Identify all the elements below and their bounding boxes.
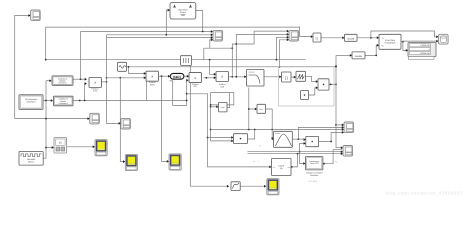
wire vco out — [323, 150, 342, 164]
wire vco in — [300, 152, 305, 164]
wire v106 tap — [107, 35, 120, 124]
svg-text:double: double — [347, 37, 355, 40]
svg-text:Converter: Converter — [58, 82, 67, 85]
block Sum 2 — [234, 134, 248, 144]
svg-text:7 1: 7 1 — [259, 144, 263, 147]
wire goto to prodBT1 — [184, 75, 188, 77]
wire filter1 out — [264, 76, 280, 78]
svg-text:Calculation: Calculation — [385, 41, 397, 44]
wire dotblk to prod4 — [309, 88, 317, 95]
svg-text:Pᵥₓ: Pᵥₓ — [335, 161, 338, 164]
wire b20 out — [229, 76, 245, 78]
wire filter2 out — [292, 138, 305, 140]
wire scopeB in3 h — [276, 36, 288, 38]
svg-text:· · 4 · · 1: · · 4 · · 1 — [251, 160, 260, 163]
wire v207 corridor — [208, 94, 271, 167]
svg-text:[ ]: [ ] — [316, 36, 319, 40]
wire v44 left loop — [45, 27, 47, 60]
wire bernoulli out — [43, 157, 46, 159]
wire scopeA in2 — [107, 34, 212, 36]
wire to white monitor 1 — [15, 118, 46, 120]
svg-text:[I&D]: [I&D] — [173, 75, 180, 79]
block VCO — [306, 157, 323, 170]
wire b23 to prod4 — [306, 76, 317, 81]
wire b5 to double1 — [321, 37, 343, 39]
wire sum2 in1 — [208, 137, 233, 139]
wire resh1 out loop — [266, 109, 273, 130]
wire long line y27.1 — [46, 27, 312, 36]
block Frame Conversion 1 — [313, 33, 321, 42]
wire scopeB in1 h — [254, 30, 288, 32]
svg-text:Generator: Generator — [26, 100, 35, 103]
svg-text:1.605e+05: 1.605e+05 — [420, 52, 431, 55]
block Product I ch — [89, 78, 101, 88]
wire scopeA in4 — [210, 40, 212, 48]
block Integrate and Dump — [296, 71, 306, 81]
wire conv10 to scope1 — [67, 146, 94, 148]
block Counter — [272, 159, 292, 176]
wire scopeB in2 h — [236, 33, 288, 35]
block Error Rate Calculation — [379, 34, 401, 49]
wire scopeB in3 tap — [275, 37, 277, 59]
wire long line y59.7 — [46, 59, 306, 61]
svg-text:double: double — [355, 55, 363, 58]
wire tap v80.5 scopeA in1 — [80, 32, 82, 80]
block Scope B (4-input) — [289, 30, 299, 41]
wire prodI out — [101, 81, 106, 83]
annotation grey area box — [279, 67, 335, 107]
svg-text:2.493e-05: 2.493e-05 — [420, 44, 430, 47]
wire scopeD in1 — [336, 147, 342, 149]
block Lowpass Filter 1 — [247, 70, 265, 87]
svg-text:Lowpass: Lowpass — [248, 71, 255, 74]
svg-text:Time VCO: Time VCO — [310, 162, 319, 165]
wire up to prodBT1 in2 — [186, 80, 189, 105]
wire scopeB in1 z — [232, 31, 254, 77]
svg-text:(BW): (BW) — [150, 83, 155, 86]
block Converter 10 — [54, 138, 67, 153]
wire scopeA in1 — [81, 31, 212, 33]
svg-text:(0.1 48.0): (0.1 48.0) — [309, 180, 318, 183]
svg-text:blog.csdn.net/weixin_42654107: blog.csdn.net/weixin_42654107 — [386, 191, 463, 196]
block Unipolar to Bipolar Converter — [52, 76, 73, 85]
wire spectrum feed — [166, 10, 169, 35]
wire v190 down — [190, 60, 228, 187]
wire prodQ in2 line — [107, 77, 146, 79]
wire count out — [291, 154, 298, 167]
wire double2 feed — [336, 54, 351, 56]
block Product X — [306, 136, 319, 146]
wire sine long line — [129, 66, 336, 68]
wire prodBT1 out — [204, 77, 215, 79]
wire sine out — [127, 66, 129, 68]
block Scope D — [343, 146, 353, 157]
block Scope (top-left small display) — [31, 10, 41, 21]
wire double1 out — [357, 37, 378, 39]
svg-text:[ ]: [ ] — [285, 76, 288, 80]
block Sine Wave — [118, 62, 127, 71]
wire uni2 up to prodI in2 — [85, 84, 86, 101]
block Buffer — [181, 56, 192, 66]
block Scope Y2 — [125, 154, 137, 170]
block To Workspace — [439, 34, 449, 44]
wire scopeC in4 — [319, 132, 343, 141]
wire loop to workspace1 — [371, 31, 438, 38]
block Bandpass Filter 2 — [274, 131, 293, 147]
block white monitor 2 — [121, 118, 131, 129]
wire px in2 — [300, 143, 305, 151]
block Bernoulli Binary Generator — [19, 152, 43, 166]
svg-text:Scope: Scope — [180, 11, 187, 14]
wire prodQ out — [159, 75, 170, 77]
wire prod4 out — [329, 83, 336, 85]
wire resh out up — [227, 93, 230, 108]
block Scope Y3 — [169, 154, 181, 170]
wire resh1 feed — [249, 109, 256, 130]
wire scopeC in2 tap — [298, 127, 343, 139]
wire v203.8 — [203, 48, 205, 60]
wire to converter10 — [46, 147, 53, 149]
svg-text:Binary: Binary — [28, 161, 34, 164]
block PN Sequence Generator — [19, 95, 43, 110]
wire oval under loop — [170, 81, 187, 106]
block white monitor 1 — [90, 113, 100, 124]
wire tap to scope3 — [162, 76, 168, 161]
wire scopeB in4 — [280, 40, 288, 67]
wire h153.7 — [248, 153, 342, 155]
wire h93.8 — [187, 93, 208, 95]
wire v209 b20 in1 — [210, 60, 215, 75]
wire h48.2 — [204, 47, 233, 49]
svg-text:Tx: Tx — [382, 37, 384, 40]
wire uni1 to prodI — [73, 78, 86, 80]
block small filter — [231, 182, 240, 191]
wire filt to scope4 — [240, 185, 265, 187]
wire scopeA in3 — [107, 37, 212, 39]
block Reshape — [219, 102, 228, 112]
wire resh feed — [211, 106, 218, 108]
svg-text:Oscillator: Oscillator — [310, 174, 319, 177]
block Unbuffer — [282, 72, 292, 82]
block Display — [408, 43, 436, 57]
block Reshape1 — [257, 104, 266, 113]
block Unipolar to Bipolar Converter1 — [54, 96, 74, 106]
block Constant small — [301, 91, 309, 100]
wire small rect 1 — [211, 93, 234, 105]
svg-text:Resh: Resh — [221, 106, 225, 109]
wire v120.6 down — [120, 78, 124, 162]
wire sum2 out — [248, 130, 255, 140]
block Data Type Conversion double 2 — [352, 52, 365, 59]
block Product 3 — [216, 72, 228, 82]
block Spectrum Scope — [170, 3, 196, 20]
block Product Q — [146, 71, 158, 81]
wire double2 out — [365, 45, 378, 55]
wire to workspace2 — [403, 40, 438, 43]
wire v336 long — [335, 55, 337, 147]
block Data Type Conversion double 1 — [345, 34, 358, 41]
block Scope C — [344, 122, 354, 133]
wire scopeC in1 — [336, 124, 343, 126]
svg-text:Converter1: Converter1 — [59, 102, 68, 105]
block Scope Y1 — [95, 140, 107, 156]
wire v211 corridor — [211, 93, 233, 141]
wire PN to Unipolar2 — [43, 100, 52, 102]
wire to top-left scope — [15, 16, 30, 119]
wire h129.5 long — [211, 129, 343, 131]
wire junction v46-uni1 — [46, 80, 51, 82]
wire prodQ bottom tap — [145, 81, 147, 101]
block Product BT1 — [189, 73, 201, 83]
block Goto tag — [170, 73, 184, 79]
wire spectrum right — [196, 11, 203, 32]
wire filter2 in — [271, 130, 274, 139]
wire b22 to b23 — [291, 76, 295, 78]
svg-text:Rx: Rx — [382, 45, 384, 48]
block Product 4 — [318, 79, 329, 90]
wire h151.7 — [248, 151, 342, 153]
svg-text:(I ch): (I ch) — [93, 90, 98, 93]
block Scope Y4 — [267, 179, 279, 195]
wire uni2 out long — [73, 100, 187, 102]
svg-text:Dufilter: Dufilter — [275, 132, 281, 135]
wire left vertical bus x=46 — [45, 81, 47, 159]
wire errcalc out — [401, 42, 407, 51]
block Scope A (4-input) — [213, 30, 223, 41]
